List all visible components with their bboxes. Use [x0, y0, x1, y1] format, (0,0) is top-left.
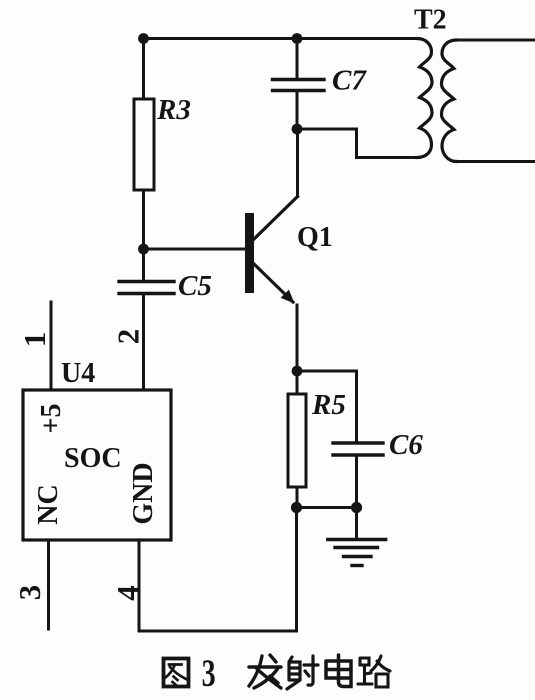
wire node F to node G — [297, 506, 357, 509]
capacitor C6 — [333, 443, 383, 455]
node B (top C7 junction) — [292, 33, 303, 44]
caption glyph lu — [358, 656, 390, 687]
wire C6 bottom lead — [355, 455, 358, 508]
svg-text:R3: R3 — [156, 94, 191, 126]
transistor Q1 — [245, 213, 254, 293]
caption glyph fa — [249, 655, 281, 688]
caption glyph dian — [326, 655, 351, 687]
wire emitter vertical — [296, 305, 299, 371]
ground — [328, 540, 386, 566]
svg-text:Q1: Q1 — [297, 222, 333, 253]
wire R5 top lead — [296, 371, 299, 394]
svg-text:GND: GND — [128, 462, 159, 524]
resistor R3 — [134, 99, 154, 190]
svg-text:1: 1 — [17, 332, 52, 348]
wire collector vertical — [296, 129, 299, 197]
svg-text:C6: C6 — [389, 429, 423, 461]
svg-text:T2: T2 — [414, 5, 447, 36]
wire collector diagonal — [253, 197, 298, 241]
transformer T2 secondary winding — [442, 40, 457, 162]
wire pin 4 lead — [138, 540, 141, 631]
transformer T2 primary winding — [417, 39, 432, 158]
IC U4 box — [23, 390, 171, 540]
svg-text:U4: U4 — [61, 358, 95, 389]
resistor R5 — [288, 394, 306, 487]
wire base lead — [144, 248, 246, 251]
caption figure number glyph tu — [164, 659, 189, 687]
node A (top left junction) — [138, 33, 149, 44]
svg-text:2: 2 — [111, 329, 146, 345]
svg-text:+5: +5 — [36, 404, 67, 434]
wire emitter diagonal — [254, 264, 293, 302]
wire ground lead — [355, 508, 358, 540]
svg-text:4: 4 — [110, 585, 145, 601]
svg-text:C7: C7 — [332, 65, 367, 97]
wire C7 top lead — [296, 39, 299, 80]
svg-text:3: 3 — [12, 585, 47, 601]
wire pin 3 lead — [47, 540, 50, 629]
wire bottom return — [139, 508, 297, 632]
wire top rail — [144, 37, 418, 40]
capacitor C5 — [119, 282, 174, 294]
node E (emitter/R5 junction) — [292, 366, 303, 377]
node D (collector junction) — [292, 124, 303, 135]
wire R3 top lead — [142, 39, 145, 100]
wire R5 bottom lead — [296, 487, 299, 508]
svg-text:SOC: SOC — [64, 443, 122, 474]
node C (base junction) — [138, 244, 149, 255]
svg-text:NC: NC — [33, 484, 64, 524]
svg-text:R5: R5 — [311, 389, 346, 421]
caption glyph she — [287, 656, 318, 689]
wire R3 bottom lead — [142, 190, 145, 249]
svg-text:3: 3 — [202, 653, 216, 695]
node F (R5 bottom junction) — [291, 502, 302, 513]
wire C5 top lead — [142, 249, 145, 281]
capacitor C7 — [273, 80, 325, 91]
wire secondary top — [457, 39, 535, 42]
wire C7 bottom lead — [296, 91, 299, 130]
wire step to transformer primary — [297, 129, 417, 158]
svg-text:C5: C5 — [178, 270, 212, 302]
wire C6 top branch — [297, 371, 357, 443]
emitter arrow — [281, 290, 295, 304]
wire pin 1 lead — [50, 302, 53, 390]
wire secondary bottom — [457, 160, 535, 163]
wire pin 2 lead — [142, 294, 145, 391]
node G (C6/ground junction) — [351, 502, 362, 513]
